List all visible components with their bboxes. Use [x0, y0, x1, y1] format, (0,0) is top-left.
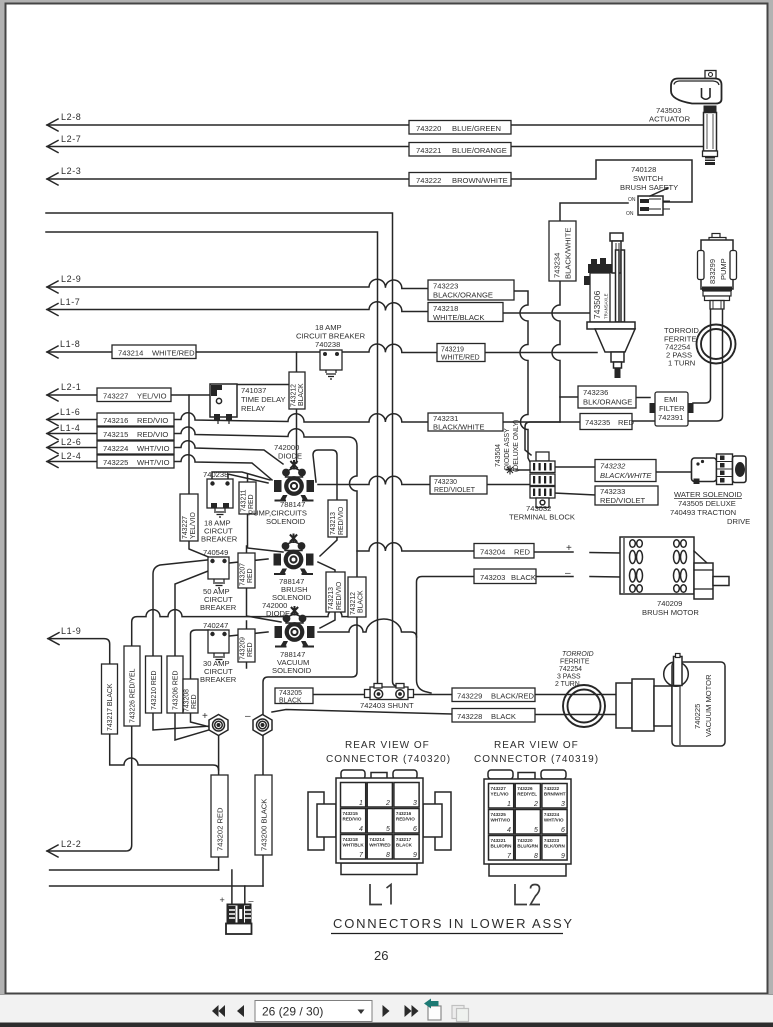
- svg-text:RED/VIO: RED/VIO: [137, 416, 168, 425]
- svg-text:L2-3: L2-3: [61, 166, 81, 176]
- svg-text:WHT/BLK: WHT/BLK: [343, 843, 365, 848]
- svg-text:8: 8: [534, 853, 538, 860]
- svg-text:L1-8: L1-8: [60, 339, 80, 349]
- svg-text:BLACK/RED: BLACK/RED: [491, 692, 535, 701]
- svg-text:BLACK/WHITE: BLACK/WHITE: [564, 228, 573, 279]
- svg-text:BLACK/WHITE: BLACK/WHITE: [600, 471, 652, 480]
- svg-text:743230: 743230: [434, 479, 457, 486]
- svg-text:743226 RED/YEL: 743226 RED/YEL: [130, 668, 137, 723]
- svg-text:743226: 743226: [517, 786, 533, 791]
- svg-text:RED: RED: [191, 694, 198, 709]
- svg-text:740209: 740209: [657, 599, 682, 608]
- svg-text:743233: 743233: [600, 487, 625, 496]
- svg-text:BLACK/WHITE: BLACK/WHITE: [433, 423, 484, 432]
- svg-text:BRUSH SAFETY: BRUSH SAFETY: [620, 183, 678, 192]
- svg-text:FILTER: FILTER: [659, 404, 685, 413]
- svg-text:743220: 743220: [517, 838, 533, 843]
- svg-text:1: 1: [507, 801, 511, 808]
- svg-text:YEL/VIO: YEL/VIO: [137, 392, 167, 401]
- svg-text:REAR VIEW OF: REAR VIEW OF: [345, 740, 430, 751]
- svg-text:L1-6: L1-6: [60, 407, 80, 417]
- svg-text:ON: ON: [626, 211, 634, 217]
- svg-text:743203: 743203: [480, 573, 505, 582]
- svg-text:743225: 743225: [103, 458, 128, 467]
- svg-text:RED/VIO: RED/VIO: [336, 581, 343, 610]
- svg-text:743222: 743222: [544, 786, 560, 791]
- svg-text:RED/VIOLET: RED/VIOLET: [600, 496, 646, 505]
- svg-text:BREAKER: BREAKER: [200, 675, 237, 684]
- svg-text:TRANSAXLE: TRANSAXLE: [604, 293, 609, 319]
- svg-text:DRIVE: DRIVE: [727, 517, 750, 526]
- svg-text:–: –: [245, 711, 251, 722]
- svg-text:743227: 743227: [182, 516, 189, 539]
- svg-text:743504: 743504: [495, 444, 502, 467]
- svg-text:3 PASS: 3 PASS: [557, 674, 581, 681]
- svg-text:743217 BLACK: 743217 BLACK: [107, 683, 114, 731]
- svg-text:26 (29 / 30): 26 (29 / 30): [262, 1005, 323, 1019]
- svg-text:RED/VIO: RED/VIO: [343, 817, 362, 822]
- svg-text:743212: 743212: [291, 384, 298, 407]
- svg-text:2: 2: [385, 800, 390, 807]
- svg-text:740128: 740128: [631, 165, 656, 174]
- svg-text:743221: 743221: [491, 838, 507, 843]
- svg-text:CONNECTOR (740320): CONNECTOR (740320): [326, 754, 451, 765]
- svg-text:ON: ON: [628, 197, 636, 203]
- svg-text:743207: 743207: [240, 563, 247, 586]
- svg-text:BLACK: BLACK: [491, 712, 516, 721]
- svg-text:BLACK: BLACK: [511, 573, 536, 582]
- svg-text:742403 SHUNT: 742403 SHUNT: [360, 701, 414, 710]
- svg-text:743219: 743219: [441, 347, 464, 354]
- svg-text:743221: 743221: [416, 146, 441, 155]
- svg-text:BLU/ORN: BLU/ORN: [491, 844, 513, 849]
- svg-text:RED: RED: [247, 568, 254, 583]
- svg-text:SWITCH: SWITCH: [633, 174, 663, 183]
- svg-text:26: 26: [374, 948, 388, 963]
- svg-text:TORROID: TORROID: [562, 651, 594, 658]
- svg-text:BLUE/ORANGE: BLUE/ORANGE: [452, 146, 507, 155]
- svg-text:743235: 743235: [585, 418, 610, 427]
- svg-text:833299: 833299: [708, 259, 717, 284]
- svg-text:L2-1: L2-1: [61, 382, 81, 392]
- svg-text:5: 5: [386, 826, 390, 833]
- svg-text:743205: 743205: [279, 690, 302, 697]
- svg-text:3: 3: [561, 801, 565, 808]
- svg-text:WHITE/RED: WHITE/RED: [152, 349, 195, 358]
- svg-text:743209: 743209: [240, 637, 247, 660]
- svg-text:743211: 743211: [241, 489, 248, 512]
- svg-text:6: 6: [413, 826, 417, 833]
- svg-text:TERMINAL BLOCK: TERMINAL BLOCK: [509, 513, 575, 522]
- svg-text:743215: 743215: [343, 811, 359, 816]
- svg-text:743506: 743506: [592, 290, 602, 319]
- svg-text:DIODE: DIODE: [266, 609, 290, 618]
- svg-text:9: 9: [413, 852, 417, 859]
- svg-text:743220: 743220: [416, 124, 441, 133]
- svg-text:743229: 743229: [457, 692, 482, 701]
- svg-text:743225: 743225: [491, 812, 507, 817]
- svg-text:4: 4: [507, 827, 511, 834]
- svg-text:743213: 743213: [328, 587, 335, 610]
- svg-text:L2-8: L2-8: [61, 112, 81, 122]
- svg-text:BLK/ORANGE: BLK/ORANGE: [583, 398, 632, 407]
- svg-text:743224: 743224: [103, 444, 128, 453]
- svg-text:1 TURN: 1 TURN: [668, 359, 695, 368]
- svg-text:743223: 743223: [544, 838, 560, 843]
- svg-text:+: +: [566, 543, 572, 554]
- svg-text:743214: 743214: [118, 349, 143, 358]
- svg-text:RED/VIO: RED/VIO: [396, 817, 415, 822]
- svg-text:3: 3: [413, 800, 417, 807]
- svg-text:743505 DELUXE: 743505 DELUXE: [678, 499, 736, 508]
- svg-text:L2-9: L2-9: [61, 274, 81, 284]
- svg-text:WHT/VIO: WHT/VIO: [137, 444, 170, 453]
- svg-text:BLACK: BLACK: [396, 843, 413, 848]
- svg-text:+: +: [202, 711, 208, 722]
- svg-text:741037: 741037: [241, 386, 266, 395]
- svg-text:740247: 740247: [203, 621, 228, 630]
- svg-text:YEL/VIO: YEL/VIO: [491, 792, 510, 797]
- svg-text:743228: 743228: [457, 712, 482, 721]
- svg-text:740493 TRACTION: 740493 TRACTION: [670, 508, 736, 517]
- svg-text:743234: 743234: [553, 253, 562, 278]
- svg-text:RED/VIOLET: RED/VIOLET: [434, 487, 476, 494]
- svg-text:BLACK/ORANGE: BLACK/ORANGE: [433, 291, 493, 300]
- svg-text:SOLENOID: SOLENOID: [266, 517, 306, 526]
- svg-text:2: 2: [533, 801, 538, 808]
- svg-text:743202 RED: 743202 RED: [216, 807, 225, 851]
- svg-text:PUMP: PUMP: [719, 258, 728, 280]
- svg-text:RED/YEL: RED/YEL: [517, 792, 537, 797]
- svg-text:743217: 743217: [396, 837, 412, 842]
- svg-text:BREAKER: BREAKER: [200, 603, 237, 612]
- svg-text:L2-6: L2-6: [61, 437, 81, 447]
- svg-text:5: 5: [534, 827, 538, 834]
- svg-text:WHT/VIO: WHT/VIO: [491, 818, 511, 823]
- svg-text:RED: RED: [247, 642, 254, 657]
- svg-text:EMI: EMI: [664, 395, 678, 404]
- svg-text:YEL/VIO: YEL/VIO: [190, 512, 197, 539]
- svg-text:L2-2: L2-2: [61, 839, 81, 849]
- svg-text:L2-7: L2-7: [61, 134, 81, 144]
- svg-text:RED/VIO: RED/VIO: [338, 506, 345, 535]
- svg-text:BRUSH MOTOR: BRUSH MOTOR: [642, 608, 699, 617]
- svg-text:1: 1: [359, 800, 363, 807]
- svg-text:743206 RED: 743206 RED: [173, 671, 180, 710]
- svg-text:743224: 743224: [544, 812, 560, 817]
- svg-text:L1-4: L1-4: [60, 423, 80, 433]
- svg-text:ACTUATOR: ACTUATOR: [649, 115, 691, 124]
- svg-text:L2-4: L2-4: [61, 451, 81, 461]
- svg-text:743223: 743223: [433, 282, 458, 291]
- svg-text:TIME DELAY: TIME DELAY: [241, 395, 286, 404]
- svg-text:743214: 743214: [369, 837, 385, 842]
- svg-text:BREAKER: BREAKER: [201, 535, 238, 544]
- svg-text:WHT/VIO: WHT/VIO: [544, 818, 564, 823]
- svg-text:743218: 743218: [433, 304, 458, 313]
- svg-text:743232: 743232: [600, 462, 626, 471]
- svg-text:WATER SOLENOID: WATER SOLENOID: [674, 490, 742, 499]
- svg-text:740238: 740238: [315, 340, 340, 349]
- svg-text:–: –: [565, 568, 571, 579]
- svg-text:743200 BLACK: 743200 BLACK: [260, 799, 269, 851]
- svg-text:742391: 742391: [658, 413, 683, 422]
- svg-text:2 TURN: 2 TURN: [555, 681, 580, 688]
- svg-text:743208: 743208: [184, 689, 191, 712]
- svg-text:740549: 740549: [203, 548, 228, 557]
- svg-text:743216: 743216: [396, 811, 412, 816]
- svg-text:743222: 743222: [416, 176, 441, 185]
- svg-text:DIODE ASSY: DIODE ASSY: [504, 428, 511, 470]
- svg-text:+: +: [220, 895, 225, 905]
- svg-text:740225: 740225: [693, 704, 702, 729]
- svg-text:BLACK: BLACK: [279, 698, 302, 705]
- svg-text:743216: 743216: [103, 416, 128, 425]
- svg-text:BLU/GRN: BLU/GRN: [517, 844, 539, 849]
- svg-text:743227: 743227: [491, 786, 507, 791]
- svg-text:VACUUM MOTOR: VACUUM MOTOR: [704, 674, 713, 737]
- svg-text:BROWN/WHITE: BROWN/WHITE: [452, 176, 508, 185]
- svg-text:4: 4: [359, 826, 363, 833]
- svg-text:RED/VIO: RED/VIO: [137, 430, 168, 439]
- svg-text:742254: 742254: [559, 666, 582, 673]
- svg-text:743212: 743212: [350, 592, 357, 615]
- svg-text:RED: RED: [618, 418, 635, 427]
- svg-text:WHT/RED: WHT/RED: [369, 843, 391, 848]
- svg-text:WHT/VIO: WHT/VIO: [137, 458, 170, 467]
- svg-text:743204: 743204: [480, 548, 505, 557]
- svg-text:BLK/ORN: BLK/ORN: [544, 844, 566, 849]
- svg-text:DIODE: DIODE: [278, 452, 302, 461]
- svg-text:(DELUXE ONLY): (DELUXE ONLY): [513, 420, 520, 472]
- svg-text:BLACK: BLACK: [298, 383, 305, 406]
- svg-text:CONNECTORS IN LOWER ASSY: CONNECTORS IN LOWER ASSY: [333, 916, 574, 931]
- svg-text:743218: 743218: [343, 837, 359, 842]
- svg-text:L1-9: L1-9: [61, 626, 81, 636]
- svg-text:740238: 740238: [203, 470, 228, 479]
- svg-text:8: 8: [386, 852, 390, 859]
- svg-text:9: 9: [561, 853, 565, 860]
- svg-text:743213: 743213: [330, 512, 337, 535]
- svg-text:SOLENOID: SOLENOID: [272, 666, 312, 675]
- svg-text:743227: 743227: [103, 392, 128, 401]
- svg-text:RED: RED: [248, 494, 255, 509]
- svg-text:WHITE/RED: WHITE/RED: [441, 355, 480, 362]
- svg-text:L1-7: L1-7: [60, 297, 80, 307]
- svg-text:FERRITE: FERRITE: [560, 659, 590, 666]
- svg-text:BRN/WHT: BRN/WHT: [544, 792, 566, 797]
- svg-text:BLACK: BLACK: [358, 590, 365, 613]
- svg-text:6: 6: [561, 827, 565, 834]
- svg-text:CONNECTOR (740319): CONNECTOR (740319): [474, 754, 599, 765]
- svg-text:REAR VIEW OF: REAR VIEW OF: [494, 740, 579, 751]
- svg-text:WHITE/BLACK: WHITE/BLACK: [433, 313, 484, 322]
- svg-text:RELAY: RELAY: [241, 404, 265, 413]
- svg-text:743210 RED: 743210 RED: [151, 671, 158, 710]
- svg-text:743236: 743236: [583, 388, 608, 397]
- svg-text:–: –: [249, 896, 254, 906]
- svg-text:RED: RED: [514, 548, 531, 557]
- svg-text:BLUE/GREEN: BLUE/GREEN: [452, 124, 501, 133]
- svg-text:743215: 743215: [103, 430, 128, 439]
